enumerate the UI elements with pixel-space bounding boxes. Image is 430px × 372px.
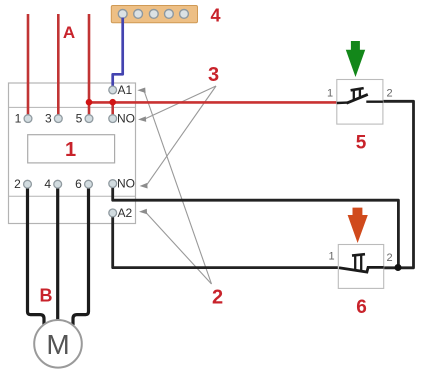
- wire black A2 to stop button pin 1: [113, 217, 339, 268]
- svg-text:2: 2: [14, 177, 21, 191]
- pointer line from label 2 to A1: [137, 88, 211, 285]
- contactor label window: [28, 135, 115, 163]
- svg-text:5: 5: [76, 112, 83, 126]
- svg-text:B: B: [40, 286, 53, 306]
- svg-text:4: 4: [210, 6, 220, 26]
- start button S5 NO contact symbol: [337, 88, 383, 103]
- terminal NO (bottom): [109, 177, 135, 191]
- svg-text:5: 5: [356, 133, 367, 154]
- svg-text:6: 6: [75, 177, 82, 191]
- terminal 5: [76, 112, 93, 126]
- pointer line from label 2 to A2: [139, 209, 212, 284]
- svg-text:6: 6: [356, 297, 367, 318]
- svg-text:A1: A1: [118, 83, 133, 97]
- svg-text:4: 4: [44, 177, 51, 191]
- terminal 1: [15, 112, 32, 126]
- svg-text:3: 3: [208, 64, 219, 86]
- svg-text:3: 3: [45, 112, 52, 126]
- terminal 2: [14, 177, 31, 191]
- wire black terminal 4 to motor: [56, 188, 59, 321]
- svg-text:A2: A2: [118, 206, 133, 220]
- svg-text:1: 1: [65, 139, 76, 161]
- contactor KM1 body: [9, 83, 136, 224]
- stop button S6 box: [328, 245, 392, 289]
- wire black terminal 6 to motor: [73, 188, 89, 325]
- wire blue from strip to A1: [113, 18, 123, 87]
- svg-text:2: 2: [386, 252, 392, 264]
- wire black terminal 2 to motor: [28, 188, 45, 325]
- wire phase 3 (red): [88, 14, 91, 115]
- orange stop arrow: [348, 208, 368, 243]
- pointer line from label 3 to NO (top row): [138, 86, 216, 122]
- motor M: [34, 320, 82, 368]
- terminal 6: [75, 177, 92, 191]
- junction node at stop button pin 2: [395, 264, 402, 271]
- start button S5 box: [327, 80, 393, 125]
- junction node on phase 3: [86, 99, 93, 106]
- terminal strip 4: [111, 6, 197, 23]
- terminal A1: [109, 83, 133, 97]
- terminal NO (top): [109, 112, 135, 126]
- wire black start button pin 2 down to junction: [383, 101, 414, 267]
- svg-text:NO: NO: [117, 112, 135, 126]
- terminal 3: [45, 112, 62, 126]
- svg-text:M: M: [46, 329, 69, 360]
- svg-text:1: 1: [328, 251, 334, 263]
- svg-text:2: 2: [212, 286, 223, 308]
- green start arrow: [346, 41, 365, 77]
- terminal 4: [44, 177, 61, 191]
- pointer line from label 3 to NO (bottom row): [140, 86, 216, 189]
- wire black NO2 to stop button junction: [113, 188, 399, 268]
- svg-text:NO: NO: [117, 177, 135, 191]
- wire phase 1 (red): [27, 14, 30, 115]
- svg-text:2: 2: [386, 88, 392, 100]
- svg-text:1: 1: [327, 88, 333, 100]
- wire red control to button 5 pin 1: [89, 101, 337, 104]
- wire phase 2 (red): [57, 14, 60, 115]
- junction node above NO1: [109, 99, 116, 106]
- svg-text:A: A: [63, 23, 75, 42]
- wire red stub junction to NO1: [111, 102, 114, 115]
- terminal A2: [109, 206, 133, 220]
- stop button S6 NC contact symbol: [339, 254, 384, 272]
- svg-text:1: 1: [15, 112, 22, 126]
